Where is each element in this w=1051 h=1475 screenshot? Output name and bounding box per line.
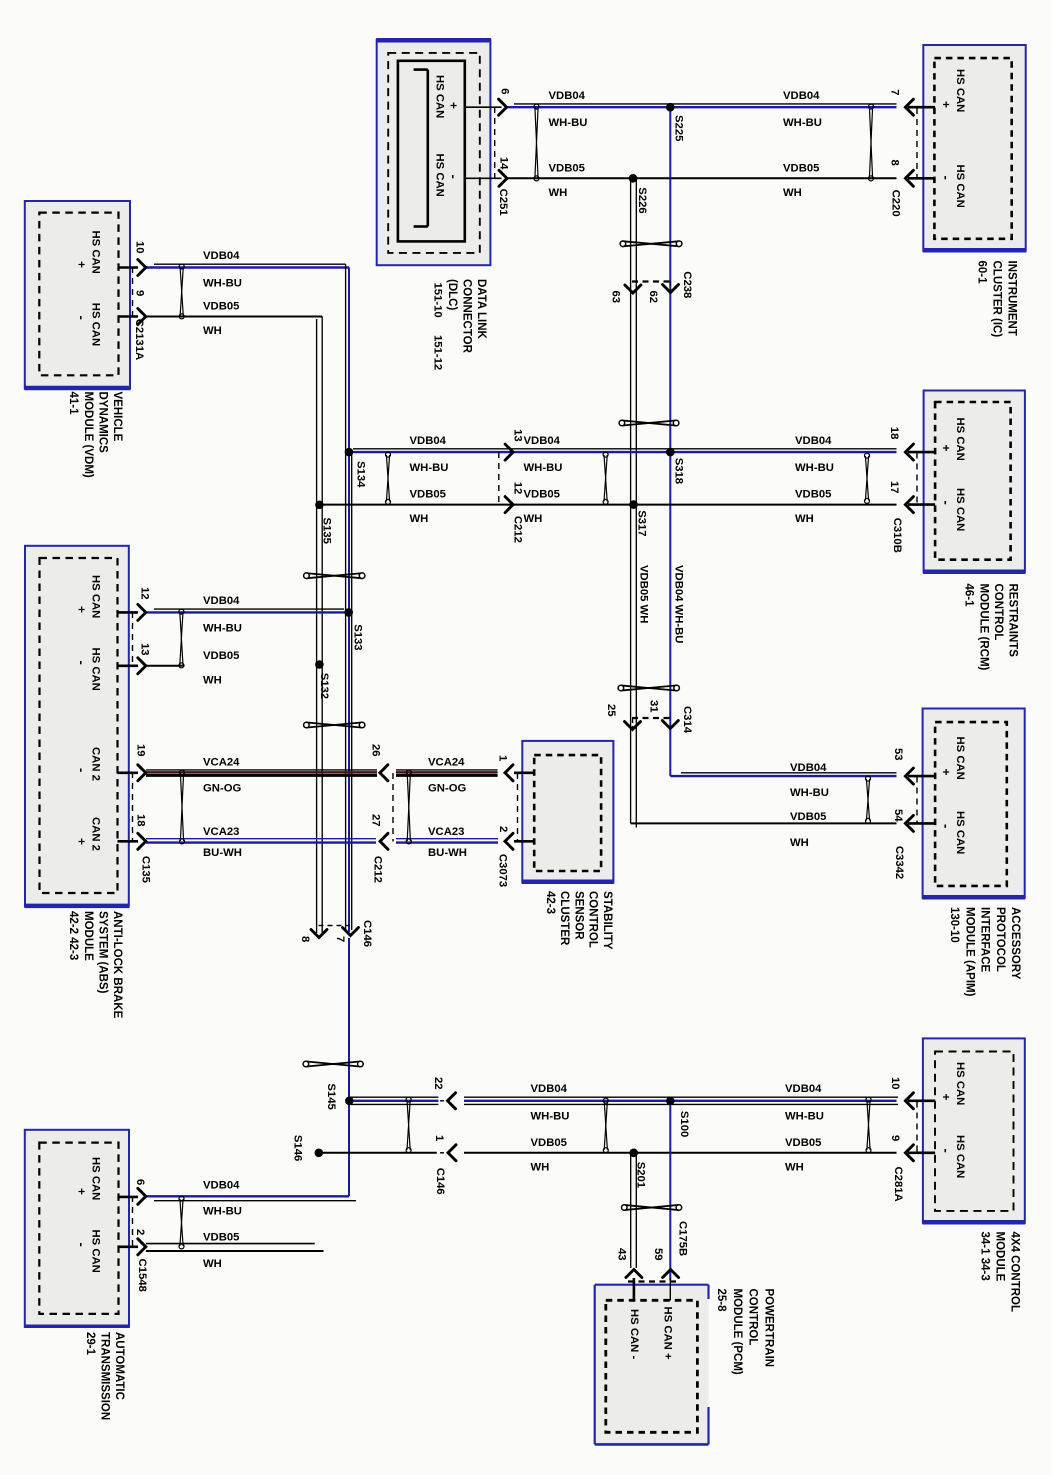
wire VDB04 WH-BU left vertical white strand [345,264,347,930]
svg-text:10: 10 [889,1077,901,1090]
svg-text:25: 25 [605,704,617,717]
wire VDB04 WH-BU vertical S100 to C175B pin59 to PCM [669,1101,671,1280]
svg-text:WH: WH [783,187,802,199]
svg-text:-: - [446,175,461,179]
connector C281A dashed line [916,1102,918,1153]
svg-text:RESTRAINTS: RESTRAINTS [1007,584,1019,658]
twisted-pair symbol left of S100 [603,1098,608,1153]
svg-text:C314: C314 [681,706,693,734]
svg-text:29-1: 29-1 [84,1332,96,1356]
svg-text:+: + [446,102,460,109]
svg-text:2: 2 [497,826,509,832]
arrow C146 pin8 [311,930,327,938]
module IC name label [976,261,1018,338]
svg-text:BU-WH: BU-WH [203,847,242,859]
splice S201 [629,1149,638,1158]
wire VDB04 WH-BU AT corner to AT pin6 (blue strand) [146,1195,349,1197]
svg-text:DYNAMICS: DYNAMICS [96,392,108,454]
svg-text:WH-BU: WH-BU [410,462,449,474]
arrow Stability pin1 [505,765,513,781]
svg-text:8: 8 [889,160,901,166]
module Stability Control Sensor Cluster box [522,741,614,882]
svg-text:HS CAN: HS CAN [90,1230,102,1273]
svg-text:6: 6 [499,88,511,94]
arrow Stability pin2 [505,833,513,849]
svg-text:CONTROL: CONTROL [992,584,1004,641]
connector C3342 dashed line [916,777,918,824]
arrow ABS pin19 [138,765,146,781]
wire VDB04 WH-BU DLC pin6 to IC pin7 (blue strand) [507,106,897,108]
arrow IC pin7 [905,99,913,115]
connector C3073 dashed line [517,773,519,842]
RCM pin label HS CAN - [939,488,966,531]
svg-text:1: 1 [497,755,509,761]
arrow C212 pin13 [505,444,513,460]
module APIM name label [948,907,1021,997]
svg-text:19: 19 [135,744,147,757]
connector C212 dashed line (row B) [498,452,500,505]
svg-text:HS CAN: HS CAN [954,737,966,780]
svg-text:27: 27 [370,814,382,827]
svg-text:VDB04: VDB04 [203,250,240,262]
svg-text:HS CAN: HS CAN [954,165,966,208]
svg-text:VDB04: VDB04 [549,90,586,102]
svg-text:HS CAN: HS CAN [433,75,445,118]
svg-text:VDB05: VDB05 [795,489,831,501]
APIM pin label HS CAN + [939,737,966,780]
svg-text:C146: C146 [434,1168,446,1195]
ABS pin label HS CAN - [75,648,102,691]
DLC pin label HS CAN + [433,75,460,118]
svg-text:4X4 CONTROL: 4X4 CONTROL [1009,1232,1021,1313]
svg-text:-: - [939,176,954,180]
svg-text:17: 17 [888,481,900,494]
svg-text:VDB05: VDB05 [410,489,446,501]
svg-text:25-8: 25-8 [715,1289,727,1313]
svg-text:WH: WH [531,1161,550,1173]
wire VCA24 GN-OG C212 pin26 to Stability pin1 (bar) [396,770,498,776]
wire pin43 into PCM [633,1278,636,1301]
wire VDB04 WH-BU below C146 pin7 to S145 to AT corner [348,938,350,1196]
svg-text:CONTROL: CONTROL [587,891,599,948]
svg-text:12: 12 [512,482,524,495]
svg-text:59: 59 [652,1248,664,1261]
svg-text:GN-OG: GN-OG [428,783,466,795]
svg-text:C146: C146 [361,920,373,947]
IC pin label HS CAN - [939,165,966,208]
svg-text:+: + [75,838,89,845]
svg-text:C1548: C1548 [136,1259,148,1292]
svg-text:HS CAN: HS CAN [954,69,966,112]
svg-text:VCA23: VCA23 [428,826,464,838]
splice S145 [345,1097,354,1106]
arrow RCM pin18 [905,444,913,460]
twisted-pair symbol VDM side [179,264,184,319]
svg-text:13: 13 [512,429,524,442]
wire VCA24 GN-OG ABS pin19 to C212 pin26 (bar) [146,770,377,776]
arrow ABS pin13 [138,658,146,674]
svg-text:VDB05 WH: VDB05 WH [638,565,650,623]
svg-text:7: 7 [889,89,901,95]
wire VDB04 WH-BU ABS pin12 to S133 (blue strand) [146,611,349,613]
svg-text:7: 7 [334,936,346,942]
svg-text:10: 10 [134,241,146,254]
svg-text:2: 2 [134,1229,146,1235]
svg-text:41-1: 41-1 [67,392,79,416]
svg-text:HS CAN: HS CAN [954,418,966,461]
splice S225 [666,103,675,112]
module Automatic Transmission box [24,1130,129,1327]
arrow C212 pin12 [505,497,513,513]
svg-text:VCA24: VCA24 [428,756,465,768]
svg-text:HS CAN -: HS CAN - [628,1309,640,1359]
svg-text:-: - [939,824,954,828]
svg-text:WH-BU: WH-BU [524,462,563,474]
wire VDB04 WH-BU C146 pin22 to S100 to 4X4 pin10 (white strand) [464,1096,898,1098]
wire VDB04 WH-BU VDM pin10 to corner (blue strand) [146,266,349,268]
ABS pin label CAN 2 + [75,817,102,851]
arrow C175B pin59 [663,1270,679,1278]
module PCM name label [715,1289,774,1375]
wire VDB04 WH-BU S134 to RCM pin18 (white strand) [353,448,897,450]
connector C238 dashed line [632,280,671,282]
wire VDB05 WH vertical S226 to C238 to S317 to C314 to corner (left strand) [630,178,632,823]
splice S134 [345,448,354,457]
twisted-pair symbol on verticals above C175B [622,1205,682,1211]
svg-text:STABILITY: STABILITY [601,891,613,950]
4X4 pin label HS CAN + [939,1062,966,1105]
svg-text:INSTRUMENT: INSTRUMENT [1006,261,1018,336]
module RCM (Restraints Control Module) box [923,391,1025,573]
wire VDB04 WH-BU DLC pin6 to IC pin7 (white strand) [514,103,897,105]
svg-text:HS CAN: HS CAN [954,488,966,531]
connector C146 dashed line (pins 8/7) [319,925,351,927]
connector C135 dashed line (CAN2) [132,772,134,842]
twisted-pair symbol IC side [869,104,874,181]
splice S100 [666,1097,675,1106]
twisted-pair symbol right of S134 [386,452,391,504]
svg-text:+: + [939,769,953,776]
svg-text:VDB05: VDB05 [549,162,585,174]
module 4X4 Control Module box [922,1038,1025,1222]
ABS pin label HS CAN + [75,575,102,618]
svg-text:MODULE: MODULE [994,1232,1006,1282]
module ABS (Anti-Lock Brake System) box [25,546,130,907]
svg-text:CAN 2: CAN 2 [90,817,102,851]
svg-text:WH: WH [203,674,222,686]
svg-text:S133: S133 [352,624,364,650]
svg-text:42-3: 42-3 [544,891,556,914]
arrow ABS pin12 [138,604,146,620]
svg-text:26: 26 [370,744,382,757]
twisted-pair symbol right of C212 CAN2 [406,770,411,844]
wire VDB04 WH-BU S134 to RCM pin18 (blue strand) [349,451,897,453]
svg-text:S135: S135 [321,518,333,544]
module VDM (Vehicle Dynamics Module) box [24,201,130,389]
svg-text:HS CAN: HS CAN [90,231,102,274]
svg-text:34-1 34-3: 34-1 34-3 [979,1232,991,1281]
wire VDB05 WH vertical S201 to C175B pin43 (right strand) [635,1153,637,1268]
svg-text:43: 43 [616,1248,628,1261]
svg-text:C175B: C175B [677,1221,689,1256]
svg-text:C238: C238 [681,271,693,298]
svg-text:HS CAN: HS CAN [954,811,966,854]
svg-text:S132: S132 [318,673,330,699]
svg-text:S146: S146 [292,1135,304,1161]
svg-text:BU-WH: BU-WH [428,847,467,859]
svg-text:VDB04: VDB04 [203,1179,240,1191]
IC pin label HS CAN + [939,69,966,112]
svg-text:WH-BU: WH-BU [531,1110,570,1122]
svg-text:VDB04: VDB04 [531,1083,568,1095]
twisted-pair symbol on middle verticals above C238 [620,241,682,247]
wire VDB05 WH AT pin2 stub (lower strand) [146,1250,324,1252]
arrow VDM pin9 [138,309,146,325]
arrow 4X4 pin9 [905,1145,913,1161]
AT pin label HS CAN - [75,1230,102,1273]
splice S146 [315,1149,324,1158]
VDM pin label HS CAN + [75,231,102,274]
svg-text:ACCESSORY: ACCESSORY [1009,907,1021,980]
wire VDB04 WH-BU left vertical white strand 2 [351,452,353,930]
connector C238 dashed wire segment pin62 [669,282,671,290]
svg-text:SENSOR: SENSOR [572,891,584,940]
svg-text:12: 12 [139,587,151,600]
svg-text:6: 6 [134,1179,146,1185]
svg-text:C281A: C281A [892,1167,904,1202]
svg-text:WH-BU: WH-BU [549,117,588,129]
svg-text:WH: WH [410,513,429,525]
wire VDB04 WH-BU AT pin6 (white strand) [154,1200,356,1202]
arrow ABS pin18 [138,833,146,849]
twisted-pair symbol DLC side [534,104,539,181]
svg-text:WH-BU: WH-BU [203,278,242,290]
svg-text:18: 18 [888,427,900,440]
arrow RCM pin17 [905,497,913,513]
svg-text:MODULE (VDM): MODULE (VDM) [82,392,94,478]
svg-text:+: + [939,445,953,452]
svg-text:130-10: 130-10 [948,907,960,943]
wire VDB04 WH-BU vertical S225 to C238 to S318 to C314 to APIM corner [669,107,671,776]
wire VDB05 WH left vertical (right strand) [321,317,323,934]
twisted-pair symbol on blue vertical above S145 [303,1061,363,1067]
wire VDB04 WH-BU ABS pin12 to S133 (white strand) [154,608,344,610]
svg-text:VEHICLE: VEHICLE [111,392,123,442]
svg-text:WH-BU: WH-BU [203,622,242,634]
connector C146 dashed wire segment pin22 [440,1100,447,1102]
twisted-pair symbol ABS CAN2 [180,770,185,844]
svg-text:WH-BU: WH-BU [790,787,829,799]
svg-text:HS CAN +: HS CAN + [662,1307,674,1360]
module DLC name label [431,279,487,370]
splice S317 [629,500,638,509]
module PCM (Powertrain Control Module) box [595,1285,709,1445]
pin stubs DLC [465,107,502,178]
VDM pin label HS CAN - [75,303,102,346]
svg-text:VDB04: VDB04 [203,595,240,607]
module Stability name label [544,891,613,950]
svg-text:WH: WH [203,1258,222,1270]
svg-text:VDB04: VDB04 [410,435,447,447]
connector C135 dashed line (HS CAN) [132,612,134,666]
svg-text:DATA LINK: DATA LINK [475,279,487,340]
wire VDB05 WH S146 to C146 pin1 [319,1152,437,1154]
wire pin59 into PCM [669,1278,671,1301]
twisted-pair symbol RCM side [865,453,870,503]
svg-text:CLUSTER: CLUSTER [558,891,570,946]
svg-text:VDB04: VDB04 [785,1083,822,1095]
wire VDB04 WH-BU S145 to C146 pin22 (triple strands) [349,1097,438,1104]
connector C310B dashed line [916,453,918,505]
connector C1548 dashed line [132,1196,134,1247]
connector C251 dashed line [494,107,496,179]
AT pin label HS CAN + [75,1157,102,1200]
svg-text:VDB04: VDB04 [795,435,832,447]
arrow DLC pin6 [499,99,507,115]
svg-text:S226: S226 [636,187,648,213]
module VDM name label [67,392,123,478]
wire VDB05 WH vertical S226 down (right strand) [635,178,637,827]
twisted-pair symbol on middle verticals above S318 [619,420,679,426]
svg-text:46-1: 46-1 [963,584,975,608]
wire VCA23 BU-WH ABS pin18 to C212 pin27 [146,839,376,843]
wire VDB05 WH S135 to RCM pin17 [318,504,896,506]
svg-text:WH-BU: WH-BU [783,117,822,129]
svg-text:WH: WH [785,1161,804,1173]
svg-text:22: 22 [432,1077,444,1090]
module RCM name label [963,584,1019,671]
svg-text:VDB05: VDB05 [203,650,239,662]
twisted-pair symbol on left verticals upper [304,573,365,579]
svg-text:S317: S317 [636,510,648,536]
splice S135 [315,501,324,510]
svg-text:WH-BU: WH-BU [795,462,834,474]
svg-text:VDB05: VDB05 [524,489,560,501]
arrow C238 pin63 [625,285,641,293]
svg-text:HS CAN: HS CAN [90,1157,102,1200]
arrow C146 pin1 [448,1145,456,1161]
svg-text:VDB04: VDB04 [783,90,820,102]
svg-text:AUTOMATIC: AUTOMATIC [113,1332,125,1400]
arrow C146 pin22 [448,1093,456,1109]
svg-text:PROTOCOL: PROTOCOL [994,907,1006,972]
svg-text:WH-BU: WH-BU [785,1110,824,1122]
arrow C212 pin27 [380,833,388,849]
svg-text:42-2 42-3: 42-2 42-3 [67,911,79,960]
svg-text:62: 62 [647,291,659,304]
svg-text:HS CAN: HS CAN [90,303,102,346]
RCM pin label HS CAN + [939,418,966,461]
svg-text:C251: C251 [497,189,509,216]
svg-text:+: + [75,261,89,268]
svg-text:MODULE (APIM): MODULE (APIM) [963,907,975,997]
svg-text:-: - [75,661,90,665]
svg-text:S145: S145 [325,1083,337,1109]
svg-text:HS CAN: HS CAN [433,154,445,197]
svg-text:MODULE: MODULE [82,911,94,961]
connector C314 dashed wire segment pin25 [632,719,634,728]
twisted-pair symbol on left verticals lower [304,722,365,728]
svg-text:+: + [75,606,89,613]
svg-text:-: - [75,1243,90,1247]
svg-text:CONTROL: CONTROL [747,1289,759,1346]
svg-text:VDB04: VDB04 [790,762,827,774]
svg-text:S318: S318 [673,458,685,484]
svg-text:S225: S225 [673,115,685,141]
svg-text:VDB05: VDB05 [783,162,819,174]
splice S133 [344,608,353,617]
svg-text:53: 53 [892,748,904,761]
svg-text:HS CAN: HS CAN [90,648,102,691]
svg-text:MODULE (RCM): MODULE (RCM) [977,584,989,671]
wire VDB04 WH-BU corner to APIM pin53 (blue strand) [670,775,896,777]
wire VDB05 WH left vertical (left strand) S135 S132 to C146 pin8 [316,319,318,933]
svg-text:C212: C212 [372,856,384,883]
wire VDB05 WH VDM pin9 to corner [146,316,322,318]
arrow C212 pin26 [380,765,388,781]
svg-text:WH: WH [524,513,543,525]
svg-text:1: 1 [433,1135,445,1141]
svg-text:CONNECTOR: CONNECTOR [461,279,473,354]
svg-text:CLUSTER (IC): CLUSTER (IC) [991,261,1003,338]
twisted-pair symbol left of C146 pins 22/1 [406,1097,411,1153]
twisted-pair symbol APIM side [866,776,871,823]
wire VDB05 WH corner to APIM pin54 [631,822,897,824]
arrow C175B pin43 [626,1270,642,1278]
svg-text:VDB05: VDB05 [790,811,826,823]
svg-text:GN-OG: GN-OG [203,783,241,795]
wire VDB05 WH vertical S201 to C175B pin43 (left strand) [630,1153,632,1268]
module DLC (Data Link Connector) box [376,40,491,266]
svg-text:(DLC): (DLC) [446,279,458,310]
svg-text:+: + [939,101,953,108]
arrow 4X4 pin10 [905,1093,913,1109]
svg-text:VDB04: VDB04 [524,435,561,447]
svg-text:54: 54 [892,809,904,822]
svg-text:VDB05: VDB05 [785,1137,821,1149]
module ABS name label [67,911,123,1019]
connector C220 dashed line [916,108,918,179]
svg-text:C212: C212 [512,516,524,543]
connector C212 dashed line (CAN2) [392,773,394,842]
svg-text:-: - [939,501,954,505]
svg-text:VCA24: VCA24 [203,756,240,768]
wire VDB05 WH DLC pin14 to IC pin8 [507,177,897,179]
module AT name label [84,1332,125,1420]
svg-text:C310B: C310B [891,518,903,553]
wire VDB05 WH AT pin2 stub (upper strand) [146,1243,315,1245]
svg-text:13: 13 [139,643,151,656]
arrow C146 pin7 [343,928,359,936]
arrow AT pin2 [138,1239,146,1255]
svg-text:9: 9 [889,1135,901,1141]
svg-text:-: - [75,768,90,772]
svg-text:SYSTEM (ABS): SYSTEM (ABS) [96,911,108,994]
twisted-pair symbol left of S317 [603,452,608,504]
svg-text:C220: C220 [890,190,902,217]
svg-text:14: 14 [498,157,510,170]
svg-text:C3073: C3073 [497,854,509,887]
connector C2131A dashed line [132,267,134,317]
svg-text:CAN 2: CAN 2 [90,747,102,781]
svg-text:+: + [75,1188,89,1195]
svg-text:C3342: C3342 [893,846,905,879]
svg-text:151-12: 151-12 [431,335,443,370]
APIM pin label HS CAN - [939,811,966,854]
svg-text:151-10: 151-10 [431,283,443,318]
svg-text:HS CAN: HS CAN [90,575,102,618]
splice S132 [315,660,324,669]
